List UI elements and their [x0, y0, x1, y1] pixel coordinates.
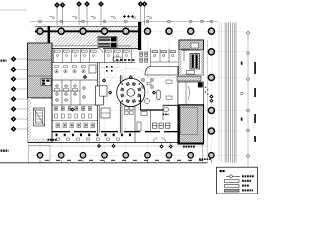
top dimension line with grid bubbles — [30, 21, 218, 23]
hatched wall band and pre-function room — [177, 77, 201, 82]
bottom-right hatched hall block — [178, 105, 204, 144]
interior partition walls — [52, 46, 178, 142]
toilet fixtures block — [55, 107, 95, 128]
right dimension line with grid bubbles — [247, 30, 249, 168]
entrance lobby block with elevator shaft — [179, 40, 204, 75]
stairwell room — [28, 98, 52, 142]
legend box — [217, 167, 258, 194]
office cubicle row — [54, 49, 132, 63]
structural column donuts — [37, 28, 43, 34]
left wing hatched block — [28, 43, 53, 98]
office rooms with chairs — [62, 80, 80, 105]
meeting tables row — [55, 66, 86, 74]
corridor fixtures — [56, 134, 132, 137]
central circular lounge — [117, 78, 145, 106]
structural grid lines — [30, 22, 246, 161]
road lanes right side — [225, 23, 236, 163]
top hatched wall band with beam — [35, 26, 131, 46]
escalator block — [98, 36, 117, 47]
kitchen rooms and equipment — [140, 109, 163, 111]
bottom dimension ticks and baseline — [40, 160, 211, 163]
top column-grid diamond markers — [56, 5, 58, 25]
left grid diamond markers with leader lines — [17, 58, 45, 60]
site boundary line top-left — [0, 9, 27, 11]
top-right toilets and cubicles — [140, 49, 179, 66]
door/window tag diamonds — [98, 143, 100, 147]
